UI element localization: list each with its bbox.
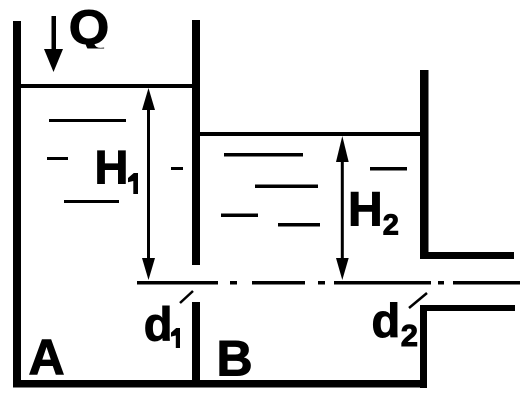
centerline dot 2 (318, 281, 325, 285)
dimension arrow H2 top head (336, 136, 349, 162)
label d1 subscript (171, 328, 180, 348)
water dash A4 (171, 167, 183, 170)
centerline dash 2 (252, 281, 305, 285)
svg-text:d: d (144, 297, 173, 350)
middle wall lower segment (below orifice d1) (192, 302, 200, 387)
tank A water surface line (16, 84, 196, 88)
dimension arrow H1 top head (142, 88, 155, 110)
centerline dash 4 (453, 281, 520, 285)
centerline dash 1 (137, 281, 218, 285)
dimension arrow H1 bottom head (142, 258, 155, 280)
tank bottom wall (13, 380, 427, 388)
svg-text:2: 2 (401, 318, 418, 353)
leader slash d1 (180, 291, 193, 303)
tank B right wall lower segment (below orifice d2) (420, 305, 427, 388)
water dash A2 (47, 157, 68, 160)
inflow arrow Q shaft (52, 16, 57, 52)
svg-text:2: 2 (383, 209, 399, 241)
tank B right wall upper segment (420, 70, 429, 259)
dimension arrow H2 bottom head (336, 258, 349, 280)
middle wall upper segment (between A and B) (192, 20, 200, 265)
water dash A3 (64, 200, 119, 203)
water dash B1 (224, 153, 303, 157)
dimension arrow H2 shaft (341, 150, 344, 270)
svg-text:B: B (217, 331, 253, 387)
inflow arrow Q head (44, 49, 63, 72)
svg-text:d: d (372, 294, 401, 347)
leader slash d2 (409, 293, 427, 308)
svg-text:H: H (348, 183, 383, 236)
tank B water surface line (196, 132, 424, 136)
water dash B3 (221, 214, 258, 218)
centerline dash 3 (334, 281, 431, 285)
svg-text:Q: Q (69, 2, 110, 55)
outlet pipe top wall (420, 252, 514, 259)
tank A left wall (13, 21, 21, 387)
label H1 subscript (128, 173, 138, 194)
svg-text:A: A (29, 330, 65, 386)
water dash B5 (370, 167, 407, 171)
water dash A1 (49, 119, 126, 122)
centerline dot 3 (438, 281, 444, 285)
centerline dot 1 (230, 281, 237, 285)
outlet pipe bottom wall (420, 305, 515, 311)
svg-text:H: H (95, 141, 129, 194)
dimension arrow H1 shaft (147, 100, 150, 270)
water dash B2 (255, 185, 318, 189)
water dash B4 (278, 223, 320, 227)
